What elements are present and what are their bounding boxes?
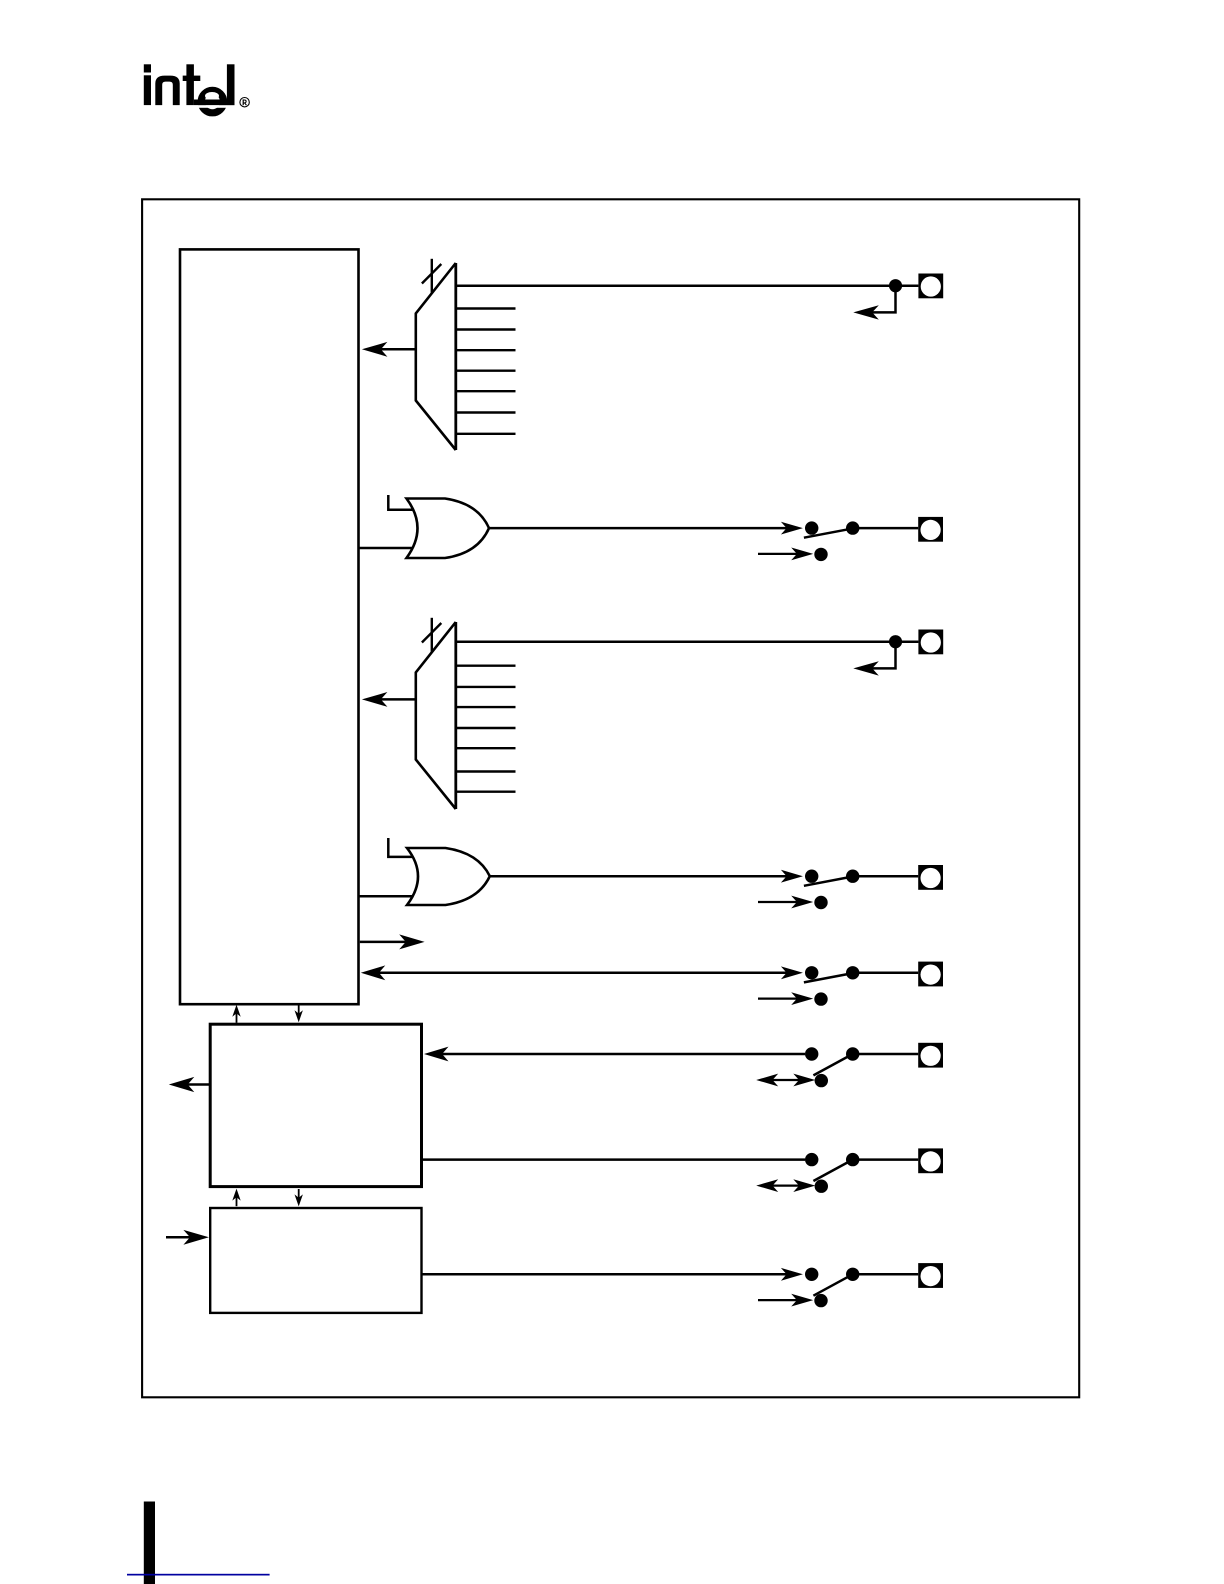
switch P7 dot 1 — [805, 1153, 818, 1166]
block U1 (port logic) — [180, 249, 359, 1004]
wire switch P5 to pad — [853, 972, 919, 975]
control dot of switch P5 — [814, 992, 827, 1005]
switch P6 dot 1 — [805, 1047, 818, 1060]
wire switch P8 to pad — [853, 1273, 919, 1276]
pad P1 — [918, 274, 943, 299]
switch P4 blade — [804, 876, 854, 885]
control dot of switch P2 — [814, 548, 827, 561]
arrowhead into block at switch row P5 — [361, 965, 386, 980]
wire from x=421.5 to switch P8 — [422, 1273, 799, 1276]
junction dot at pad P3 — [889, 635, 902, 648]
down arrow wire U1 to U2 — [298, 1006, 300, 1015]
feedback wire of pad P1 — [871, 286, 896, 313]
pad at switch P7 — [918, 1148, 943, 1173]
up arrow wire U3 to U2 — [236, 1197, 238, 1206]
bus width tick on MUX1 — [431, 259, 433, 293]
control left arrowhead of switch P7 — [756, 1179, 778, 1192]
control arrowhead of switch P5 — [791, 992, 813, 1005]
pad at switch P4 — [918, 865, 943, 890]
switch P8 dot 2 — [846, 1268, 859, 1281]
OR gate G1 top input wire (L-bend) — [388, 495, 413, 510]
output wire of MUX2 — [374, 698, 417, 701]
footer blue rule — [127, 1574, 270, 1576]
wire from x=489.8 to switch P4 — [490, 875, 798, 878]
input stub lines of MUX2 — [456, 666, 516, 792]
control dot of switch P6 — [815, 1074, 828, 1087]
wire from x=423.0 to switch P7 — [423, 1158, 805, 1161]
control wire of switch P6 — [761, 1079, 810, 1081]
switch P7 dot 2 — [846, 1153, 859, 1166]
arrowhead into switch P8 — [781, 1268, 803, 1281]
control right arrowhead of switch P7 — [793, 1179, 815, 1192]
arrowhead into switch P4 — [781, 870, 803, 883]
wire from x=424.0 to switch P6 — [441, 1053, 805, 1056]
output wire from U1 (right, y=942) — [360, 941, 407, 944]
feedback arrowhead of pad P3 — [853, 661, 879, 675]
control wire of switch P4 — [758, 901, 807, 903]
junction dot at pad P1 — [889, 279, 902, 292]
feedback wire of pad P3 — [871, 642, 896, 669]
wire to pad P1 — [456, 284, 896, 287]
pad P3 — [918, 630, 943, 655]
OR gate G1 bottom input wire — [360, 547, 414, 550]
control wire of switch P5 — [758, 997, 807, 999]
control dot of switch P4 — [814, 896, 827, 909]
wire switch P7 to pad — [853, 1158, 919, 1161]
control wire of switch P8 — [758, 1299, 807, 1301]
footer black bar — [144, 1502, 155, 1584]
switch P2 dot 1 — [805, 521, 818, 534]
up arrowhead U2 to U1 — [232, 1005, 240, 1017]
switch P4 dot 2 — [846, 870, 859, 883]
control arrowhead of switch P8 — [791, 1294, 813, 1307]
switch P5 dot 1 — [805, 966, 818, 979]
OR gate G2 — [407, 848, 490, 905]
switch P6 dot 2 — [846, 1047, 859, 1060]
down arrowhead U2 to U3 — [295, 1194, 303, 1206]
arrowhead into switch P5 — [781, 966, 803, 979]
intel logo — [144, 64, 250, 113]
output arrowhead of MUX1 — [362, 342, 388, 357]
down arrow wire U2 to U3 — [298, 1189, 300, 1198]
control right arrowhead of switch P6 — [793, 1074, 815, 1087]
bus slash on MUX1 — [422, 264, 441, 284]
down arrowhead U1 to U2 — [295, 1010, 303, 1022]
switch P2 blade — [804, 528, 854, 537]
control arrowhead of switch P2 — [791, 548, 813, 561]
multiplexer MUX1 — [416, 263, 456, 450]
output arrowhead from U1 (right, y=942) — [399, 934, 424, 949]
switch P4 dot 1 — [805, 870, 818, 883]
switch P5 dot 2 — [846, 966, 859, 979]
input arrowhead to U3 (left) — [183, 1230, 209, 1245]
pad at switch P2 — [918, 517, 943, 542]
block U2 (data register) — [210, 1024, 421, 1186]
switch P8 blade — [813, 1274, 852, 1295]
control dot of switch P8 — [814, 1294, 827, 1307]
wire from x=360.7 to switch P5 — [378, 972, 798, 975]
wire switch P2 to pad — [853, 527, 919, 530]
wire to pad P3 — [456, 640, 896, 643]
output arrowhead from U2 (left) — [169, 1077, 195, 1092]
control wire of switch P7 — [761, 1184, 810, 1186]
up arrow wire U2 to U1 — [236, 1013, 238, 1023]
output arrowhead of MUX2 — [362, 692, 388, 707]
wire junction to pad P3 — [896, 640, 919, 643]
feedback arrowhead of pad P1 — [853, 305, 879, 319]
switch P5 blade — [804, 973, 854, 982]
switch P2 dot 2 — [846, 521, 859, 534]
OR gate G2 top input wire (L-bend) — [388, 838, 413, 857]
pad at switch P6 — [918, 1043, 943, 1068]
switch P6 blade — [813, 1054, 852, 1075]
OR gate G1 — [407, 499, 490, 559]
up arrowhead U3 to U2 — [232, 1189, 240, 1201]
input stub lines of MUX1 — [456, 309, 516, 434]
switch P8 dot 1 — [805, 1268, 818, 1281]
multiplexer MUX2 — [416, 622, 456, 809]
control wire of switch P2 — [758, 553, 807, 555]
pad at switch P5 — [918, 962, 943, 987]
output wire from U2 (left) — [186, 1083, 210, 1086]
wire from x=489.0 to switch P2 — [489, 527, 798, 530]
arrowhead into block at switch row P6 — [424, 1047, 449, 1062]
control left arrowhead of switch P6 — [756, 1074, 778, 1087]
arrowhead into switch P2 — [781, 522, 803, 535]
pad at switch P8 — [918, 1263, 943, 1288]
control arrowhead of switch P4 — [791, 896, 813, 909]
figure border frame — [142, 199, 1079, 1397]
output wire of MUX1 — [374, 348, 417, 351]
control dot of switch P7 — [815, 1180, 828, 1193]
switch P7 blade — [813, 1160, 852, 1181]
OR gate G2 bottom input wire — [360, 895, 414, 898]
wire junction to pad P1 — [896, 284, 919, 287]
bus width tick on MUX2 — [431, 618, 433, 652]
block U3 (control register) — [210, 1208, 421, 1313]
wire switch P4 to pad — [853, 875, 919, 878]
bus slash on MUX2 — [422, 623, 441, 643]
input wire to U3 (left) — [166, 1236, 192, 1239]
wire switch P6 to pad — [853, 1053, 919, 1056]
